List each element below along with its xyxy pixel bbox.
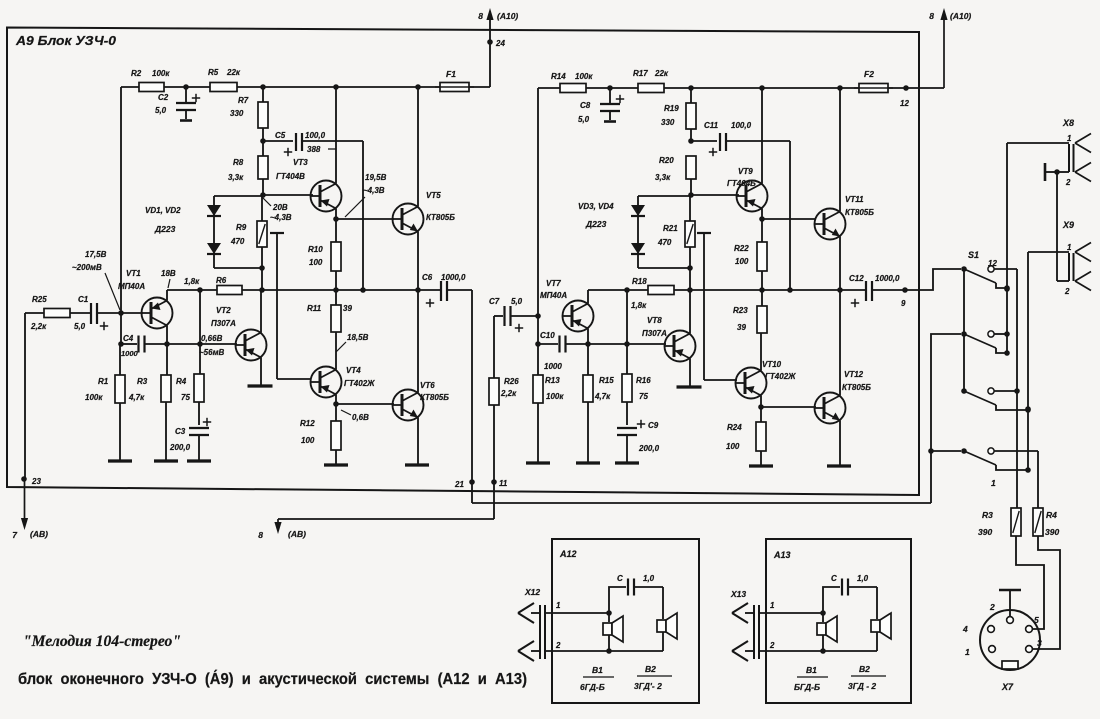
svg-text:R8: R8 bbox=[233, 158, 244, 167]
svg-text:КТ805Б: КТ805Б bbox=[420, 393, 449, 402]
wire X13 pin1 bbox=[759, 612, 823, 614]
svg-text:(А10): (А10) bbox=[497, 11, 518, 21]
wire VT9 emitter node bbox=[761, 209, 763, 220]
resistor R24 bbox=[760, 407, 762, 422]
svg-text:R20: R20 bbox=[659, 156, 674, 165]
A13 box bbox=[766, 539, 911, 703]
wire top bus right bbox=[538, 87, 859, 89]
svg-text:390: 390 bbox=[1045, 527, 1059, 537]
node R21 bottom bbox=[687, 265, 693, 271]
svg-text:3ГД'- 2: 3ГД'- 2 bbox=[634, 681, 662, 691]
capacitor C6 bbox=[440, 281, 442, 301]
svg-text:~56мВ: ~56мВ bbox=[199, 348, 224, 357]
svg-text:1000,0: 1000,0 bbox=[441, 273, 466, 282]
svg-text:20В: 20В bbox=[272, 203, 288, 212]
wire R21 to bus bbox=[689, 268, 691, 290]
node C8 bbox=[607, 85, 613, 91]
svg-text:КТ805Б: КТ805Б bbox=[845, 208, 874, 217]
svg-text:1: 1 bbox=[991, 478, 996, 488]
wire X13 pin2 bbox=[759, 650, 877, 652]
node S1 section4 branch bbox=[928, 448, 934, 454]
svg-text:100к: 100к bbox=[575, 72, 593, 81]
resistor R25 bbox=[44, 309, 70, 318]
resistor R3 bbox=[166, 344, 168, 375]
svg-text:VT5: VT5 bbox=[426, 191, 441, 200]
svg-text:БГД-Б: БГД-Б bbox=[794, 682, 820, 692]
svg-text:С10: С10 bbox=[540, 331, 555, 340]
svg-text:"Мелодия 104-стерео": "Мелодия 104-стерео" bbox=[23, 633, 181, 650]
wire C11 to output bus bbox=[789, 141, 791, 290]
svg-text:VT4: VT4 bbox=[346, 366, 361, 375]
node R7 top bbox=[260, 84, 266, 90]
wire node11 to A8 arrow bbox=[493, 482, 495, 519]
svg-text:С4: С4 bbox=[123, 334, 134, 343]
resistor R10 bbox=[335, 219, 337, 242]
svg-text:100: 100 bbox=[309, 258, 323, 267]
X7 pin 3 bbox=[1026, 646, 1033, 653]
capacitor C12 bbox=[865, 281, 867, 301]
svg-text:Х13: Х13 bbox=[730, 589, 746, 599]
svg-text:1000: 1000 bbox=[121, 349, 139, 358]
svg-text:R7: R7 bbox=[238, 96, 249, 105]
node VT8 base riser bbox=[624, 287, 630, 293]
node VT1 base bbox=[118, 310, 124, 316]
transistor VT12 bbox=[815, 393, 846, 424]
capacitor C8 bbox=[609, 88, 611, 104]
svg-text:1,0: 1,0 bbox=[643, 574, 655, 583]
resistor R13 bbox=[537, 344, 539, 375]
ground C9 bbox=[615, 461, 639, 464]
capacitor C A12 bbox=[609, 587, 626, 613]
node C5 bus bbox=[360, 287, 366, 293]
svg-text:С6: С6 bbox=[422, 273, 433, 282]
transistor VT9 bbox=[737, 181, 768, 212]
svg-text:R11: R11 bbox=[307, 304, 322, 313]
wire S1 out to R3 bbox=[1016, 269, 1018, 508]
svg-text:5,0: 5,0 bbox=[74, 322, 86, 331]
ground VT12 bbox=[827, 464, 851, 467]
node C11 branch bbox=[688, 138, 694, 144]
wire S1 out to R4 bbox=[1037, 451, 1039, 508]
node C4 left bbox=[118, 341, 124, 347]
svg-text:2: 2 bbox=[1065, 178, 1071, 187]
svg-text:R4: R4 bbox=[176, 377, 187, 386]
svg-text:18,5В: 18,5В bbox=[347, 333, 369, 342]
svg-text:23: 23 bbox=[31, 477, 41, 486]
speaker B1 A13 bbox=[822, 613, 824, 622]
wire VT12 emitter bbox=[839, 421, 841, 467]
node R22 R23 bus bbox=[759, 287, 765, 293]
svg-text:19,5В: 19,5В bbox=[365, 173, 387, 182]
node 12 bbox=[903, 85, 909, 91]
capacitor C9 bbox=[617, 427, 637, 429]
svg-text:1000: 1000 bbox=[544, 362, 562, 371]
wire node21 bus to S1 bbox=[931, 334, 961, 503]
node 9 bbox=[902, 287, 908, 293]
svg-text:1,0: 1,0 bbox=[857, 574, 869, 583]
svg-text:VD3, VD4: VD3, VD4 bbox=[578, 202, 614, 211]
node R19 top bbox=[688, 85, 694, 91]
wire VT2 base bbox=[167, 343, 237, 345]
svg-text:100к: 100к bbox=[546, 392, 564, 401]
resistor R4 bbox=[199, 344, 201, 374]
svg-text:21: 21 bbox=[454, 480, 464, 489]
resistor R7 bbox=[262, 87, 264, 102]
svg-text:3,3к: 3,3к bbox=[655, 173, 671, 182]
wire VT8 base bbox=[588, 343, 666, 345]
svg-text:R4: R4 bbox=[1046, 510, 1057, 520]
svg-text:R16: R16 bbox=[636, 376, 651, 385]
resistor R1 bbox=[119, 344, 121, 375]
resistor R5 bbox=[210, 83, 237, 92]
svg-text:А9 Блок УЗЧ-0: А9 Блок УЗЧ-0 bbox=[15, 34, 116, 48]
resistor R18 bbox=[648, 286, 674, 295]
svg-text:В1: В1 bbox=[806, 665, 817, 675]
svg-text:18В: 18В bbox=[161, 269, 176, 278]
svg-text:100: 100 bbox=[301, 436, 315, 445]
X8 pin2 stub bbox=[1044, 163, 1047, 181]
resistor R8 bbox=[258, 156, 268, 179]
svg-text:2,2к: 2,2к bbox=[30, 322, 47, 331]
svg-text:8: 8 bbox=[929, 11, 934, 21]
capacitor C10 bbox=[538, 343, 558, 345]
node S1 s3 out bbox=[1014, 388, 1020, 394]
capacitor C5 bbox=[263, 140, 293, 142]
input node 23 wire bbox=[24, 313, 26, 479]
svg-text:R12: R12 bbox=[300, 419, 315, 428]
wire VT3 base bbox=[263, 194, 313, 196]
node VT2 base riser bbox=[197, 287, 203, 293]
ground R3 bbox=[154, 459, 178, 462]
wire VT1 collector bbox=[166, 290, 168, 301]
wire C6 to node 21 bbox=[447, 289, 472, 291]
svg-text:VT12: VT12 bbox=[844, 370, 864, 379]
svg-text:1,8к: 1,8к bbox=[184, 277, 200, 286]
svg-text:R23: R23 bbox=[733, 306, 748, 315]
transistor VT2 bbox=[236, 330, 267, 361]
svg-text:100к: 100к bbox=[152, 69, 170, 78]
switch S1 section 4 bbox=[961, 448, 967, 454]
svg-text:22к: 22к bbox=[654, 69, 669, 78]
node VT7 base bbox=[535, 313, 541, 319]
svg-text:100: 100 bbox=[726, 442, 740, 451]
node C10 left bbox=[535, 341, 541, 347]
node 11 bbox=[491, 479, 497, 485]
svg-text:R1: R1 bbox=[98, 377, 109, 386]
svg-text:200,0: 200,0 bbox=[638, 444, 660, 453]
svg-text:470: 470 bbox=[230, 237, 245, 246]
wire VT12 collector bbox=[839, 290, 841, 396]
svg-text:17,5В: 17,5В bbox=[85, 250, 107, 259]
svg-text:2: 2 bbox=[769, 641, 775, 650]
diodes VD1 VD2 bbox=[213, 196, 215, 268]
transistor VT8 bbox=[665, 331, 696, 362]
wire R4 to X7 pin3 bbox=[1033, 536, 1060, 649]
svg-text:2: 2 bbox=[989, 602, 995, 612]
capacitor C A13 bbox=[823, 587, 840, 613]
resistor R21 trimmer bbox=[689, 196, 691, 221]
svg-text:1: 1 bbox=[1067, 134, 1072, 143]
X7 pin 2 bbox=[1007, 617, 1014, 624]
svg-text:R26: R26 bbox=[504, 377, 519, 386]
svg-text:R6: R6 bbox=[216, 276, 227, 285]
svg-text:Х12: Х12 bbox=[524, 587, 540, 597]
svg-text:F1: F1 bbox=[446, 69, 456, 79]
svg-text:В2: В2 bbox=[859, 664, 870, 674]
node 23 bbox=[21, 476, 27, 482]
svg-text:8: 8 bbox=[478, 11, 483, 21]
node 24 riser wire bbox=[489, 14, 491, 87]
wire VT1 emitter bbox=[166, 326, 168, 345]
svg-text:МП40А: МП40А bbox=[118, 282, 145, 291]
wire X8 pin2 to X9 pin2 bbox=[1056, 172, 1058, 281]
svg-text:1: 1 bbox=[770, 601, 775, 610]
svg-text:5,0: 5,0 bbox=[511, 297, 523, 306]
resistor R17 bbox=[638, 84, 664, 93]
resistor R26 bbox=[493, 316, 495, 378]
svg-text:VT2: VT2 bbox=[216, 306, 231, 315]
svg-text:С9: С9 bbox=[648, 421, 659, 430]
ground R15 bbox=[576, 461, 600, 464]
svg-text:С12: С12 bbox=[849, 274, 864, 283]
wire VT2 collector bbox=[260, 290, 262, 333]
svg-text:~200мВ: ~200мВ bbox=[72, 263, 102, 272]
svg-text:24: 24 bbox=[495, 39, 505, 48]
wire VT4 collector bbox=[335, 332, 337, 370]
node VT11 emitter bus bbox=[837, 287, 843, 293]
svg-text:С: С bbox=[617, 574, 623, 583]
svg-text:39: 39 bbox=[343, 304, 352, 313]
wire VT4 emitter node bbox=[335, 395, 337, 405]
capacitor C4 bbox=[121, 343, 137, 345]
svg-text:100,0: 100,0 bbox=[305, 131, 326, 140]
wire VT8 collector bbox=[689, 290, 691, 334]
svg-text:3ГД - 2: 3ГД - 2 bbox=[848, 681, 876, 691]
R21 wiper tap bbox=[697, 232, 711, 234]
svg-text:~4,3В: ~4,3В bbox=[270, 213, 292, 222]
svg-text:R2: R2 bbox=[131, 69, 142, 78]
wire feedback left riser bbox=[120, 87, 122, 344]
svg-text:2: 2 bbox=[555, 641, 561, 650]
svg-text:12: 12 bbox=[900, 99, 909, 108]
svg-text:МП40А: МП40А bbox=[540, 291, 567, 300]
resistor R6 bbox=[217, 286, 242, 295]
wire VT5 emitter bbox=[417, 232, 419, 291]
resistor R11 bbox=[335, 290, 337, 305]
wire VT6 emitter bbox=[417, 418, 419, 466]
svg-text:Х9: Х9 bbox=[1062, 220, 1074, 230]
svg-text:R17: R17 bbox=[633, 69, 648, 78]
resistor R22 bbox=[761, 219, 763, 242]
svg-text:VT10: VT10 bbox=[762, 360, 782, 369]
svg-text:330: 330 bbox=[661, 118, 675, 127]
arrow to A10 left bbox=[486, 8, 493, 20]
svg-text:R24: R24 bbox=[727, 423, 742, 432]
svg-text:С1: С1 bbox=[78, 295, 89, 304]
transistor VT5 bbox=[393, 204, 424, 235]
svg-text:R25: R25 bbox=[32, 295, 47, 304]
svg-text:100: 100 bbox=[735, 257, 749, 266]
svg-text:1,8к: 1,8к bbox=[631, 301, 647, 310]
svg-text:330: 330 bbox=[230, 109, 244, 118]
wire VT9 base bbox=[691, 194, 739, 196]
R9 wiper tap bbox=[270, 232, 284, 234]
svg-text:390: 390 bbox=[978, 527, 992, 537]
svg-text:3,3к: 3,3к bbox=[228, 173, 244, 182]
ground VT2 bbox=[248, 384, 273, 387]
switch S1 section 2 bbox=[961, 331, 967, 337]
capacitor C7 input bbox=[494, 315, 503, 317]
svg-text:С5: С5 bbox=[275, 131, 286, 140]
svg-text:1000,0: 1000,0 bbox=[875, 274, 900, 283]
wire VT10 emitter node bbox=[760, 396, 762, 408]
svg-text:VT8: VT8 bbox=[647, 316, 662, 325]
X7 pin 1 bbox=[989, 646, 996, 653]
svg-text:ГТ404Б: ГТ404Б bbox=[727, 179, 756, 188]
svg-text:R14: R14 bbox=[551, 72, 566, 81]
svg-text:4: 4 bbox=[962, 624, 968, 634]
svg-text:4,7к: 4,7к bbox=[128, 393, 145, 402]
svg-text:блок оконечного УЗЧ-О (А́9): блок оконечного УЗЧ-О (А́9) и акустическ… bbox=[18, 671, 527, 688]
svg-text:388: 388 bbox=[307, 145, 321, 154]
node R21 bus bbox=[687, 287, 693, 293]
node S1 s2 out bbox=[1004, 331, 1010, 337]
diodes VD3 VD4 bbox=[637, 196, 639, 268]
svg-text:(АВ): (АВ) bbox=[30, 529, 48, 539]
X7 pin 5 bbox=[1026, 626, 1033, 633]
wire X12 pin1 bbox=[545, 612, 609, 614]
node 21 bbox=[471, 482, 473, 503]
svg-text:75: 75 bbox=[639, 392, 648, 401]
svg-text:F2: F2 bbox=[864, 69, 874, 79]
svg-text:2,2к: 2,2к bbox=[500, 389, 517, 398]
svg-text:200,0: 200,0 bbox=[169, 443, 191, 452]
wire X8 pin1 bus bbox=[1006, 143, 1008, 352]
node C2 bbox=[183, 84, 189, 90]
wire R3 to X7 pin5 bbox=[1016, 536, 1044, 629]
node VT5 emitter bus bbox=[415, 287, 421, 293]
svg-text:ГТ402Ж: ГТ402Ж bbox=[344, 379, 375, 388]
resistor R9 trimmer bbox=[261, 196, 263, 221]
node R9 bus bbox=[259, 287, 265, 293]
wire output bus right bbox=[588, 289, 866, 291]
svg-text:0,6В: 0,6В bbox=[352, 413, 369, 422]
svg-text:100к: 100к bbox=[85, 393, 103, 402]
wire top bus left bbox=[121, 86, 440, 88]
wire VT3 collector bbox=[335, 87, 337, 184]
svg-text:Д223: Д223 bbox=[585, 219, 607, 229]
arrow 8 to A8 bbox=[277, 519, 279, 526]
A9 block outline bbox=[7, 28, 919, 496]
node 24 bbox=[487, 39, 493, 45]
node R9 bottom bbox=[259, 265, 265, 271]
svg-text:А13: А13 bbox=[773, 550, 791, 560]
svg-text:0,66В: 0,66В bbox=[201, 334, 223, 343]
switch S1 section 3 bbox=[961, 388, 967, 394]
X7 pin 4 bbox=[988, 626, 995, 633]
svg-text:470: 470 bbox=[657, 238, 672, 247]
resistor R12 bbox=[335, 404, 337, 421]
svg-text:~4,3В: ~4,3В bbox=[363, 186, 385, 195]
wire R9 to bus bbox=[261, 268, 263, 290]
svg-text:ГТ402Ж: ГТ402Ж bbox=[765, 372, 796, 381]
wire VT11 emitter bbox=[839, 237, 841, 291]
svg-text:1: 1 bbox=[965, 647, 970, 657]
arrow 7 to A8 bbox=[24, 479, 26, 522]
node R10 R11 bus bbox=[333, 287, 339, 293]
ground R1 bbox=[108, 459, 132, 462]
A12 box bbox=[552, 539, 699, 703]
svg-text:100,0: 100,0 bbox=[731, 121, 752, 130]
svg-text:ГТ404В: ГТ404В bbox=[276, 172, 305, 181]
svg-text:С8: С8 bbox=[580, 101, 591, 110]
svg-text:А12: А12 bbox=[559, 549, 577, 559]
svg-text:VT6: VT6 bbox=[420, 381, 435, 390]
wire C12 to node 9 bbox=[872, 289, 905, 291]
svg-text:(А10): (А10) bbox=[950, 11, 971, 21]
wire VT5 collector bbox=[417, 87, 419, 207]
svg-text:R21: R21 bbox=[663, 224, 678, 233]
capacitor C3 bbox=[189, 427, 209, 429]
wire feedback right riser bbox=[537, 88, 539, 344]
resistor R15 bbox=[587, 344, 589, 375]
ground R12 bbox=[324, 463, 348, 466]
svg-text:VT7: VT7 bbox=[546, 279, 561, 288]
svg-text:22к: 22к bbox=[226, 68, 241, 77]
wire VT7 collector bbox=[587, 290, 589, 304]
ground VT8 bbox=[677, 385, 702, 388]
wire VT7 emitter bbox=[587, 329, 589, 345]
fuse F2 bbox=[859, 84, 888, 93]
svg-text:(АВ): (АВ) bbox=[288, 529, 306, 539]
svg-text:R13: R13 bbox=[545, 376, 560, 385]
switch S1 section 1 bbox=[961, 266, 967, 272]
svg-text:5,0: 5,0 bbox=[578, 115, 590, 124]
svg-text:1: 1 bbox=[1067, 243, 1072, 252]
node C11 bus bbox=[787, 287, 793, 293]
wire VT11 collector bbox=[839, 88, 841, 212]
resistor R2 bbox=[139, 83, 164, 92]
svg-text:5: 5 bbox=[1034, 615, 1039, 625]
svg-text:R3: R3 bbox=[982, 510, 993, 520]
connector X7 body bbox=[980, 610, 1040, 670]
wire C5 to output bus bbox=[362, 141, 364, 290]
svg-text:R5: R5 bbox=[208, 68, 219, 77]
resistor R14 bbox=[560, 84, 586, 93]
svg-text:39: 39 bbox=[737, 323, 746, 332]
svg-text:11: 11 bbox=[499, 479, 508, 488]
wire lower out bus bbox=[472, 502, 931, 504]
transistor VT10 bbox=[736, 368, 767, 399]
svg-text:Д223: Д223 bbox=[154, 224, 176, 234]
svg-text:3: 3 bbox=[1037, 638, 1042, 648]
svg-text:R3: R3 bbox=[137, 377, 148, 386]
resistor R4 output bbox=[1033, 508, 1043, 536]
ground VT6 bbox=[405, 463, 429, 466]
svg-text:R15: R15 bbox=[599, 376, 614, 385]
transistor VT11 bbox=[815, 209, 846, 240]
svg-text:VT9: VT9 bbox=[738, 167, 753, 176]
transistor VT1 bbox=[142, 298, 173, 329]
wire VT9 collector bbox=[761, 88, 763, 184]
ground C3 bbox=[187, 459, 211, 462]
ground R13 bbox=[526, 461, 550, 464]
svg-text:VT1: VT1 bbox=[126, 269, 141, 278]
svg-text:R19: R19 bbox=[664, 104, 679, 113]
svg-text:R18: R18 bbox=[632, 277, 647, 286]
wire output bus left bbox=[167, 289, 441, 291]
speaker B1 A12 bbox=[608, 613, 610, 622]
